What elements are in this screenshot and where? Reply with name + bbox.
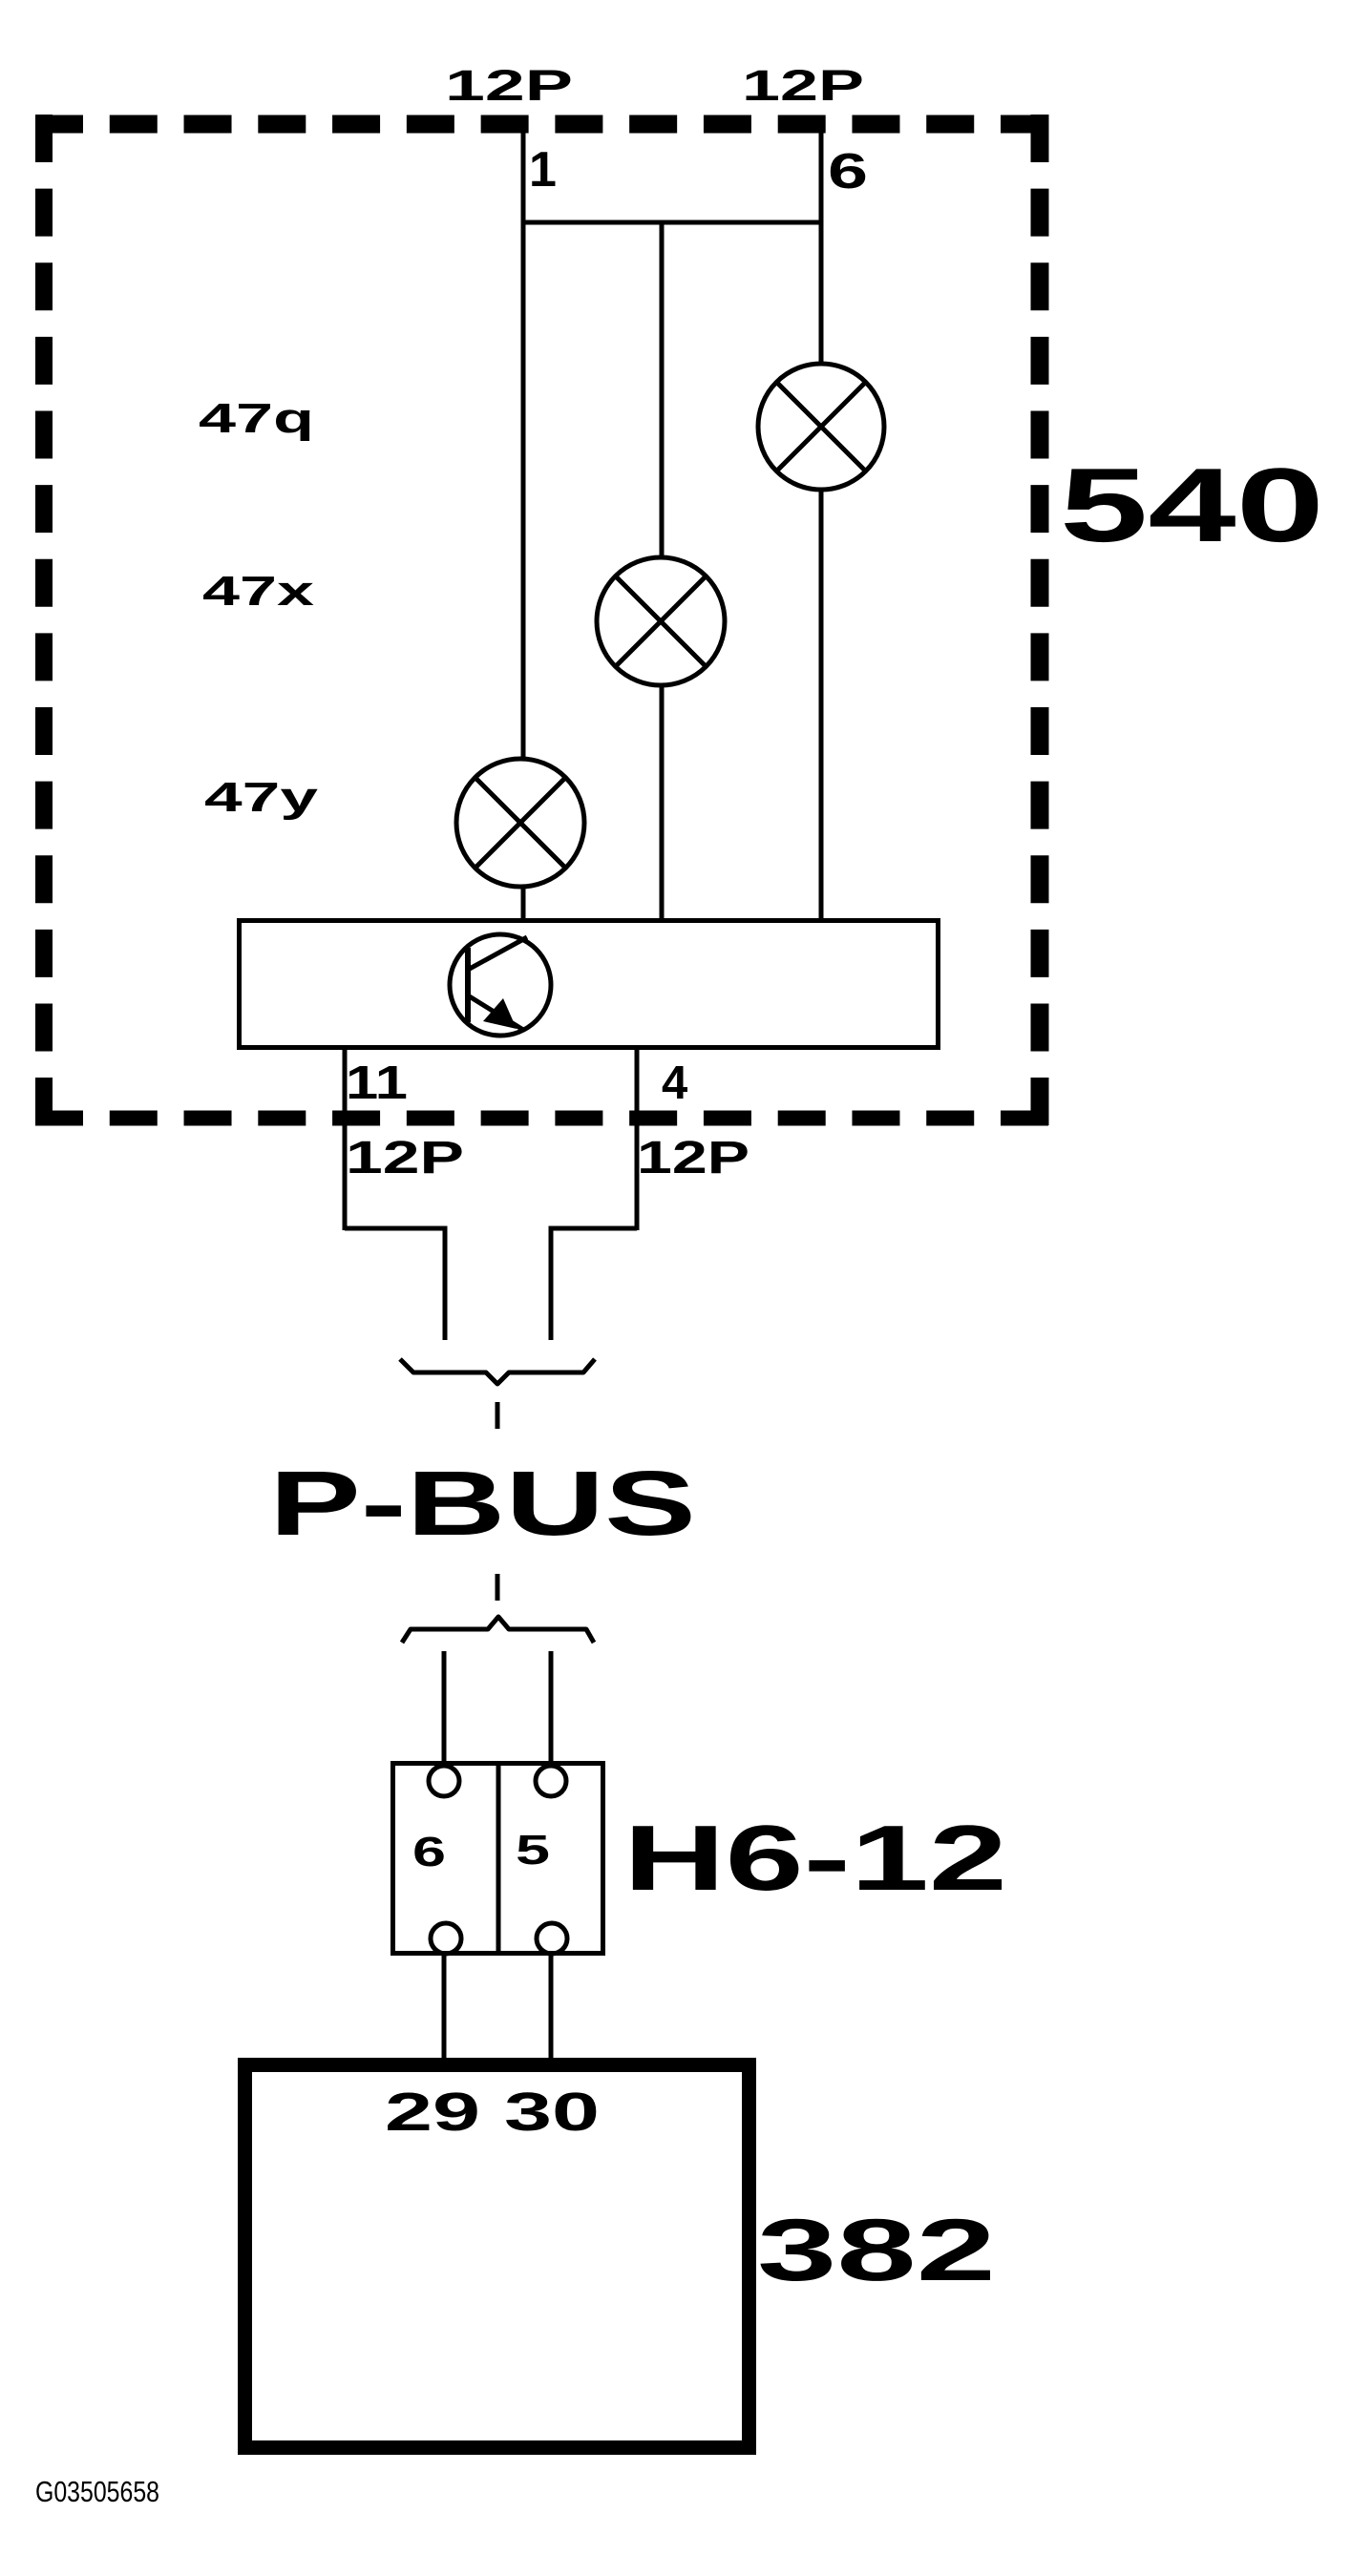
svg-text:47q: 47q	[199, 395, 314, 442]
svg-text:12P: 12P	[637, 1133, 749, 1183]
svg-text:540: 540	[1060, 447, 1324, 564]
svg-text:12P: 12P	[346, 1133, 464, 1183]
wire lamp 47y to box	[521, 887, 526, 920]
svg-text:4: 4	[662, 1058, 687, 1109]
transistor Q (in circle)	[450, 934, 551, 1036]
P-BUS wire left	[442, 1651, 447, 1768]
svg-text:47x: 47x	[202, 568, 315, 615]
transistor emitter arrow	[483, 998, 517, 1029]
P-BUS wire right	[549, 1651, 554, 1768]
wire pin1 down to lamp 47y	[521, 133, 526, 759]
middle branch wire to lamp 47x	[660, 222, 665, 557]
svg-text:5: 5	[516, 1827, 550, 1874]
svg-text:11: 11	[346, 1058, 408, 1109]
control module box 382	[245, 2065, 749, 2448]
horizontal bus wire	[521, 220, 821, 225]
wire pin6 down to lamp 47q	[819, 133, 824, 364]
svg-text:1: 1	[529, 142, 557, 198]
svg-text:6: 6	[828, 144, 868, 199]
dash link top	[496, 1402, 500, 1429]
wire junction to module pin 29	[442, 1954, 447, 2060]
svg-text:G03505658: G03505658	[35, 2475, 159, 2508]
svg-text:H6-12: H6-12	[623, 1806, 1007, 1910]
wire lamp 47x to box	[660, 685, 665, 920]
harness jog left	[345, 1228, 445, 1340]
wire junction to module pin 30	[549, 1954, 554, 2060]
driver module box	[240, 921, 939, 1048]
junction connector H6-12	[393, 1761, 603, 1956]
svg-text:29 30: 29 30	[385, 2082, 600, 2143]
lamp 47q	[758, 364, 884, 490]
harness jog right	[551, 1228, 637, 1340]
svg-text:P-BUS: P-BUS	[269, 1453, 696, 1555]
dashed component box 540	[35, 115, 1048, 1125]
brace (top, pointing down)	[400, 1359, 595, 1384]
svg-text:47y: 47y	[204, 774, 319, 821]
lamp 47x	[597, 557, 725, 685]
svg-text:6: 6	[412, 1829, 446, 1875]
svg-text:12P: 12P	[445, 61, 573, 110]
pin stub 11	[343, 1050, 348, 1230]
brace (bottom, pointing up)	[402, 1617, 594, 1643]
svg-text:382: 382	[757, 2202, 996, 2299]
lamp 47y	[456, 759, 584, 887]
svg-text:12P: 12P	[742, 61, 864, 110]
dash link bottom	[496, 1574, 500, 1601]
wire lamp 47q to box	[819, 490, 824, 920]
pin stub 4	[635, 1050, 640, 1230]
